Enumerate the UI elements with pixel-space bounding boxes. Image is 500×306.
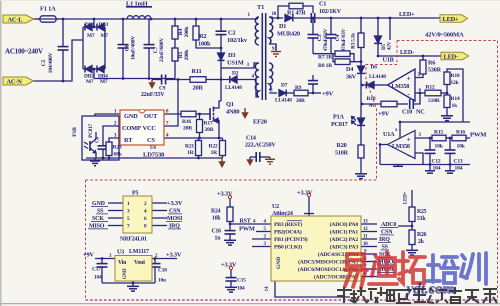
svg-text:10uF/400V: 10uF/400V (131, 36, 137, 60)
zener D5 (377, 18, 379, 36)
svg-text:T1: T1 (257, 4, 264, 11)
junction (123,78.5) (122, 77, 125, 80)
svg-text:R24: R24 (211, 209, 221, 215)
transformer aux secondary winding (269, 63, 273, 90)
svg-text:LL4148: LL4148 (275, 98, 292, 104)
wire LED+ rail (315, 17, 440, 19)
red net labels (322, 91, 487, 139)
wire PWM to PB2 (256, 231, 271, 233)
capacitor C2 (220, 19, 222, 31)
dashed region borders (86, 41, 498, 300)
fuse F1 (40, 16, 56, 22)
svg-text:+3.3V: +3.3V (166, 252, 182, 259)
svg-text:200k: 200k (184, 26, 190, 38)
junction (221,79.5) (220, 78, 223, 81)
junction (221,48) (220, 47, 223, 50)
op-amp U1B (388, 69, 416, 101)
watermark red characters (345, 252, 425, 288)
svg-text:10k: 10k (212, 216, 221, 222)
component labels top-left (5, 1, 267, 158)
svg-text:102/1kv: 102/1kv (227, 37, 248, 44)
transformer pin numbers (247, 12, 277, 94)
svg-text:EF20: EF20 (253, 119, 267, 126)
junction (178,79.5) (177, 78, 180, 81)
svg-text:+9V: +9V (378, 111, 390, 118)
svg-text:U1B: U1B (383, 57, 394, 64)
svg-text:10k: 10k (435, 144, 444, 150)
wire bridge bottom rail (94, 78, 175, 80)
svg-text:Q1: Q1 (226, 101, 234, 108)
svg-text:C13: C13 (454, 159, 463, 165)
svg-text:10u: 10u (158, 278, 166, 284)
svg-text:42V: 42V (387, 41, 393, 50)
capacitor C12 (429, 138, 431, 150)
page edge shading (0, 0, 2, 306)
svg-text:R8 1R: R8 1R (318, 63, 333, 69)
MCU right pin wires (361, 223, 377, 225)
svg-text:104: 104 (237, 286, 245, 292)
wire RST (230, 223, 271, 225)
resistor R4 (174, 19, 176, 26)
svg-text:US1M: US1M (227, 60, 244, 67)
svg-text:P1B: P1B (72, 127, 78, 137)
svg-text:13: 13 (363, 220, 368, 225)
junction (94,19) (93, 18, 96, 21)
svg-text:PC817: PC817 (88, 124, 94, 138)
resistor R3 (360, 18, 362, 33)
svg-text:M7: M7 (101, 33, 109, 39)
junction (423,56) (422, 55, 425, 58)
junction (430,164.5) (429, 163, 432, 166)
svg-text:C18: C18 (158, 268, 167, 274)
resistor R20 (358, 145, 364, 158)
yellow node flags (3, 15, 469, 85)
svg-text:470uF/63V: 470uF/63V (323, 28, 329, 51)
R26 (409, 230, 415, 245)
junction (63,19) (62, 18, 65, 21)
capacitor C18 (154, 259, 156, 264)
junction (390,18) (389, 17, 392, 20)
svg-text:GND: GND (124, 113, 138, 120)
ground C14 right (269, 157, 271, 159)
svg-text:10k: 10k (457, 144, 466, 150)
capacitor C10 (409, 99, 411, 109)
optocoupler P1A LED (358, 118, 365, 125)
svg-text:R11: R11 (192, 68, 202, 75)
svg-text:R25: R25 (417, 209, 427, 215)
power arrow EF20 (244, 108, 246, 113)
svg-text:D4: D4 (346, 66, 353, 73)
MCU pin14 (275, 281, 350, 297)
opamp plus minus (395, 74, 411, 160)
bridge labels (84, 22, 109, 85)
rotated labels (41, 26, 393, 143)
capacitor C7 (148, 19, 150, 44)
LM1117 wires (95, 258, 115, 260)
svg-text:100k: 100k (198, 41, 211, 48)
wire LD7538 pin1 (95, 114, 120, 116)
junction (362,85) (361, 84, 364, 87)
svg-text:U1A: U1A (383, 131, 395, 138)
capacitor C15 (230, 270, 232, 278)
diode DB1 (86, 24, 93, 31)
wire top rail (56, 18, 258, 20)
svg-text:+9V: +9V (83, 252, 94, 259)
node AC-L flag (3, 15, 34, 23)
power arrow gnd rail (221, 158, 223, 162)
junction (94,27) (93, 26, 96, 29)
svg-text:36V: 36V (346, 74, 357, 81)
ground rail (86, 157, 222, 159)
wire vcc rail (152, 79, 161, 81)
junction (400,122) (399, 121, 402, 124)
svg-text:R12: R12 (426, 85, 435, 91)
svg-text:R21: R21 (185, 144, 194, 150)
svg-text:L1 1mH: L1 1mH (126, 1, 148, 8)
junction (430,138) (429, 137, 432, 140)
svg-text:12: 12 (363, 227, 368, 232)
junction (331,18) (330, 17, 333, 20)
svg-text:C15: C15 (237, 278, 246, 284)
svg-text:R9: R9 (295, 85, 302, 91)
junction (420,93) (419, 92, 422, 95)
svg-text:+3.3V: +3.3V (167, 200, 183, 207)
junction (133,283) (132, 282, 135, 285)
svg-text:510R: 510R (335, 150, 349, 157)
junction (230,224) (229, 223, 232, 226)
svg-text:R2: R2 (199, 33, 206, 40)
connector P5 (123, 196, 152, 233)
R24 pullup (229, 199, 231, 208)
svg-text:PWM: PWM (239, 226, 255, 233)
svg-text:42V/0~500MA: 42V/0~500MA (425, 32, 464, 39)
connector P5 wires (108, 202, 123, 204)
bottom junction dots (101, 223, 414, 285)
svg-text:C1: C1 (319, 1, 326, 8)
svg-text:222,AC250V: 222,AC250V (245, 143, 276, 149)
junction (362,104) (361, 103, 364, 106)
svg-text:+3.3V: +3.3V (221, 262, 237, 269)
svg-text:ydt.com: ydt.com (404, 281, 456, 298)
wire AC-L to fuse (33, 18, 40, 20)
svg-text:104: 104 (455, 166, 463, 172)
svg-text:20R: 20R (193, 85, 204, 92)
junction (447,93) (446, 92, 449, 95)
capacitor C16 (225, 230, 236, 232)
svg-text:D2: D2 (232, 71, 239, 77)
svg-text:RST: RST (240, 219, 251, 225)
junction (378,18) (377, 17, 380, 20)
capacitor C5 (62, 19, 64, 46)
svg-text:(ADC0) PA0: (ADC0) PA0 (330, 221, 359, 228)
capacitor C1 (310, 13, 312, 23)
bottom pin numbers (253, 220, 368, 278)
resistor R18 (362, 103, 381, 105)
svg-text:GND: GND (276, 257, 282, 269)
wire stub (389, 18, 391, 40)
resistor R8 (335, 59, 350, 65)
svg-text:LED-: LED- (444, 54, 459, 61)
svg-text:C9: C9 (159, 86, 166, 92)
resistor R1 + snubber (278, 6, 289, 18)
capacitor C21 (312, 75, 314, 80)
junction (221,19) (220, 18, 223, 21)
svg-text:C16: C16 (212, 229, 222, 235)
regulator U3 LM1117 (115, 256, 152, 282)
junction (313,18) (312, 17, 315, 20)
node AC-N flag (3, 77, 34, 85)
svg-text:DB3: DB3 (99, 22, 109, 28)
wire U1A feedback (415, 153, 423, 165)
svg-text:RT: RT (124, 137, 133, 144)
svg-text:R15: R15 (434, 130, 443, 136)
svg-text:PC817: PC817 (331, 121, 348, 128)
svg-text:+: + (407, 135, 411, 144)
junction (450,164.5) (449, 163, 452, 166)
junction (450,138) (449, 137, 452, 140)
svg-text:+9V: +9V (322, 91, 334, 98)
svg-text:68k: 68k (114, 152, 123, 158)
junction (151,19) (150, 18, 153, 21)
resistor R12 (425, 90, 441, 96)
svg-text:M7: M7 (86, 79, 94, 85)
svg-text:MUR420: MUR420 (277, 31, 300, 38)
diode D6 (362, 84, 367, 86)
resistor R7 (335, 51, 350, 57)
svg-text:2k: 2k (418, 239, 425, 245)
svg-text:(ADC7/OC0B) PA7: (ADC7/OC0B) PA7 (314, 274, 358, 281)
svg-text:14: 14 (265, 286, 270, 291)
svg-text:(ADC1) PA1: (ADC1) PA1 (330, 229, 359, 236)
svg-text:C2: C2 (228, 30, 235, 37)
resistor R16b (452, 135, 466, 141)
svg-text:PB1 (PCINT9): PB1 (PCINT9) (274, 236, 308, 243)
svg-text:4N80: 4N80 (226, 109, 239, 116)
ground sec (275, 44, 277, 51)
diode D2 (231, 76, 238, 83)
svg-text:R16: R16 (182, 119, 191, 125)
ground secondary pin9 (brown) (271, 51, 281, 53)
svg-text:C14: C14 (246, 136, 256, 142)
resistor R10 (444, 72, 450, 85)
svg-text:LM1117: LM1117 (129, 249, 149, 255)
svg-text:NRF24L01: NRF24L01 (120, 237, 147, 243)
svg-text:R6: R6 (428, 60, 435, 67)
diode D1 MUR420 (285, 15, 292, 22)
svg-text:NC: NC (416, 109, 425, 116)
capacitor C8 (98, 145, 109, 147)
junction (102,258.5) (101, 257, 104, 260)
svg-text:C12: C12 (432, 159, 441, 165)
svg-text:U2: U2 (272, 204, 279, 210)
svg-text:+: + (407, 74, 411, 83)
diode D3 (220, 48, 222, 53)
svg-text:DB1: DB1 (85, 22, 95, 28)
svg-text:LL4148: LL4148 (369, 74, 386, 80)
transformer secondary winding (269, 17, 273, 44)
svg-text:C5: C5 (41, 59, 47, 66)
svg-text:COMP: COMP (122, 125, 141, 132)
svg-text:D7: D7 (281, 83, 288, 89)
svg-text:U4: U4 (150, 146, 156, 151)
bottom net labels (89, 201, 396, 273)
diode D7 (279, 90, 286, 97)
svg-text:C17: C17 (92, 267, 101, 273)
svg-text:PWM: PWM (470, 132, 487, 139)
svg-text:LED+: LED+ (399, 11, 415, 18)
resistor R9 (294, 90, 308, 96)
svg-text:D1: D1 (279, 23, 286, 30)
svg-text:104: 104 (94, 275, 102, 281)
resistor R6 (422, 56, 424, 60)
svg-text:M7: M7 (100, 79, 108, 85)
capacitor C4 (330, 18, 332, 34)
wire PB1 (252, 238, 271, 240)
svg-text:LED-: LED- (400, 49, 414, 56)
svg-text:20R: 20R (205, 127, 215, 133)
junction (313,93) (312, 92, 315, 95)
bottom misc labels (92, 191, 427, 291)
svg-text:22uF/35V: 22uF/35V (141, 92, 165, 98)
junction (103,158) (102, 157, 105, 160)
svg-text:R16: R16 (456, 130, 465, 136)
MCU U2 Attiny24 (271, 216, 361, 281)
junction (199.5,138) (198, 137, 201, 140)
capacitor C6 (122, 19, 124, 44)
junction (361,18) (360, 17, 363, 20)
wire LD7538 pin2 (103, 126, 120, 145)
watermark slogan characters (337, 287, 497, 303)
node LED+ flag (440, 15, 468, 22)
junction (155,258.5) (154, 257, 157, 260)
svg-text:Vout: Vout (134, 260, 145, 266)
junction (198.5,158) (197, 157, 200, 160)
resistor R15 (432, 135, 446, 141)
svg-text:1n: 1n (215, 236, 222, 242)
svg-text:102/1KV: 102/1KV (319, 8, 342, 15)
junction (175,19) (174, 18, 177, 21)
wire R10 top loop (447, 69, 463, 122)
svg-text:530R: 530R (428, 67, 442, 74)
zener D4 (358, 66, 365, 73)
junction (219,138) (218, 137, 221, 140)
transistor Q1 (209, 108, 211, 120)
wire AC-N run (33, 40, 83, 81)
junction (380,144.5) (379, 143, 382, 146)
diode DB3 (98, 24, 105, 31)
svg-text:AC100~240V: AC100~240V (5, 48, 43, 56)
svg-text:R22: R22 (209, 144, 218, 150)
junction (123,19) (122, 18, 125, 21)
svg-text:P1A: P1A (333, 114, 344, 121)
wire U1A plus input (415, 137, 432, 139)
junction (109,158) (108, 157, 111, 160)
capacitor C17 (101, 259, 103, 264)
wire U1B minus input (415, 92, 425, 94)
diode DB2 (86, 66, 93, 73)
svg-text:R14: R14 (451, 96, 460, 102)
resistor R14 (444, 95, 450, 108)
svg-text:C8: C8 (96, 136, 101, 142)
svg-text:(ADC3) PA3: (ADC3) PA3 (330, 244, 359, 251)
svg-text:R20: R20 (337, 142, 347, 149)
transformer aux primary winding (255, 63, 259, 97)
svg-text:20R: 20R (296, 98, 305, 104)
svg-text:GND: GND (123, 268, 128, 279)
svg-text:470uF/63V: 470uF/63V (341, 28, 347, 51)
svg-text:R18: R18 (367, 96, 376, 102)
R25 divider (411, 190, 413, 207)
junction (199.5,114) (198, 113, 201, 116)
svg-text:LM358: LM358 (392, 144, 410, 150)
svg-text:11: 11 (363, 235, 368, 240)
resistor R21 (198, 138, 200, 141)
wire PB0 (252, 246, 271, 248)
junction (63,81) (62, 80, 65, 83)
svg-text:M7: M7 (87, 33, 95, 39)
watermark blue characters (427, 253, 486, 284)
node LED- flag (441, 52, 469, 59)
resistor R16 (181, 111, 196, 117)
transformer primary winding (255, 17, 259, 45)
svg-text:PB2(OC0A): PB2(OC0A) (274, 229, 302, 236)
secondary labels (275, 1, 466, 172)
ground under R14 (441, 115, 453, 117)
bridge rails (82, 27, 84, 69)
wire sense right (350, 54, 354, 62)
inductor L1 (127, 16, 151, 19)
bottom pink dashed edge (86, 299, 498, 301)
svg-text:104: 104 (433, 166, 441, 172)
capacitor C14 (250, 156, 256, 158)
wire U1A top (399, 122, 401, 138)
junction (149,78.5) (148, 77, 151, 80)
svg-text:OUT: OUT (144, 113, 158, 120)
resistor R5 (172, 48, 178, 61)
power arrow C14 left (248, 160, 253, 165)
op-amp U1A (388, 131, 416, 159)
svg-text:VCC: VCC (143, 125, 157, 132)
svg-text:R3 5.1k: R3 5.1k (351, 33, 357, 49)
svg-text:(ADC2) PA2: (ADC2) PA2 (330, 236, 359, 243)
svg-text:104/400V: 104/400V (48, 52, 54, 73)
junction (278,18) (277, 17, 280, 20)
svg-text:22nF/600V: 22nF/600V (159, 38, 165, 62)
svg-text:+3.3V: +3.3V (217, 191, 233, 198)
svg-text:P5: P5 (132, 191, 138, 197)
ground (94, 158, 96, 161)
svg-text:LED+: LED+ (404, 191, 409, 204)
svg-text:R10: R10 (451, 73, 460, 79)
svg-text:R17: R17 (204, 121, 213, 127)
capacitor C9 (161, 75, 163, 85)
svg-text:R7 1R: R7 1R (318, 55, 333, 61)
svg-text:51k: 51k (417, 216, 426, 222)
junction (94,69) (93, 68, 96, 71)
resistor R17 (199, 114, 201, 120)
ground under R20 (355, 173, 367, 175)
resistor R11 (190, 77, 206, 83)
svg-text:10: 10 (272, 12, 277, 17)
svg-text:10: 10 (363, 242, 368, 247)
svg-text:20R: 20R (183, 126, 193, 132)
junction (378,56) (377, 55, 380, 58)
svg-text:LED+: LED+ (443, 16, 460, 23)
diode DB4 (98, 66, 105, 73)
resistor R22 (222, 138, 224, 141)
junction (361,61.7) (360, 60, 363, 63)
LD7538 controller U4 (114, 110, 169, 159)
